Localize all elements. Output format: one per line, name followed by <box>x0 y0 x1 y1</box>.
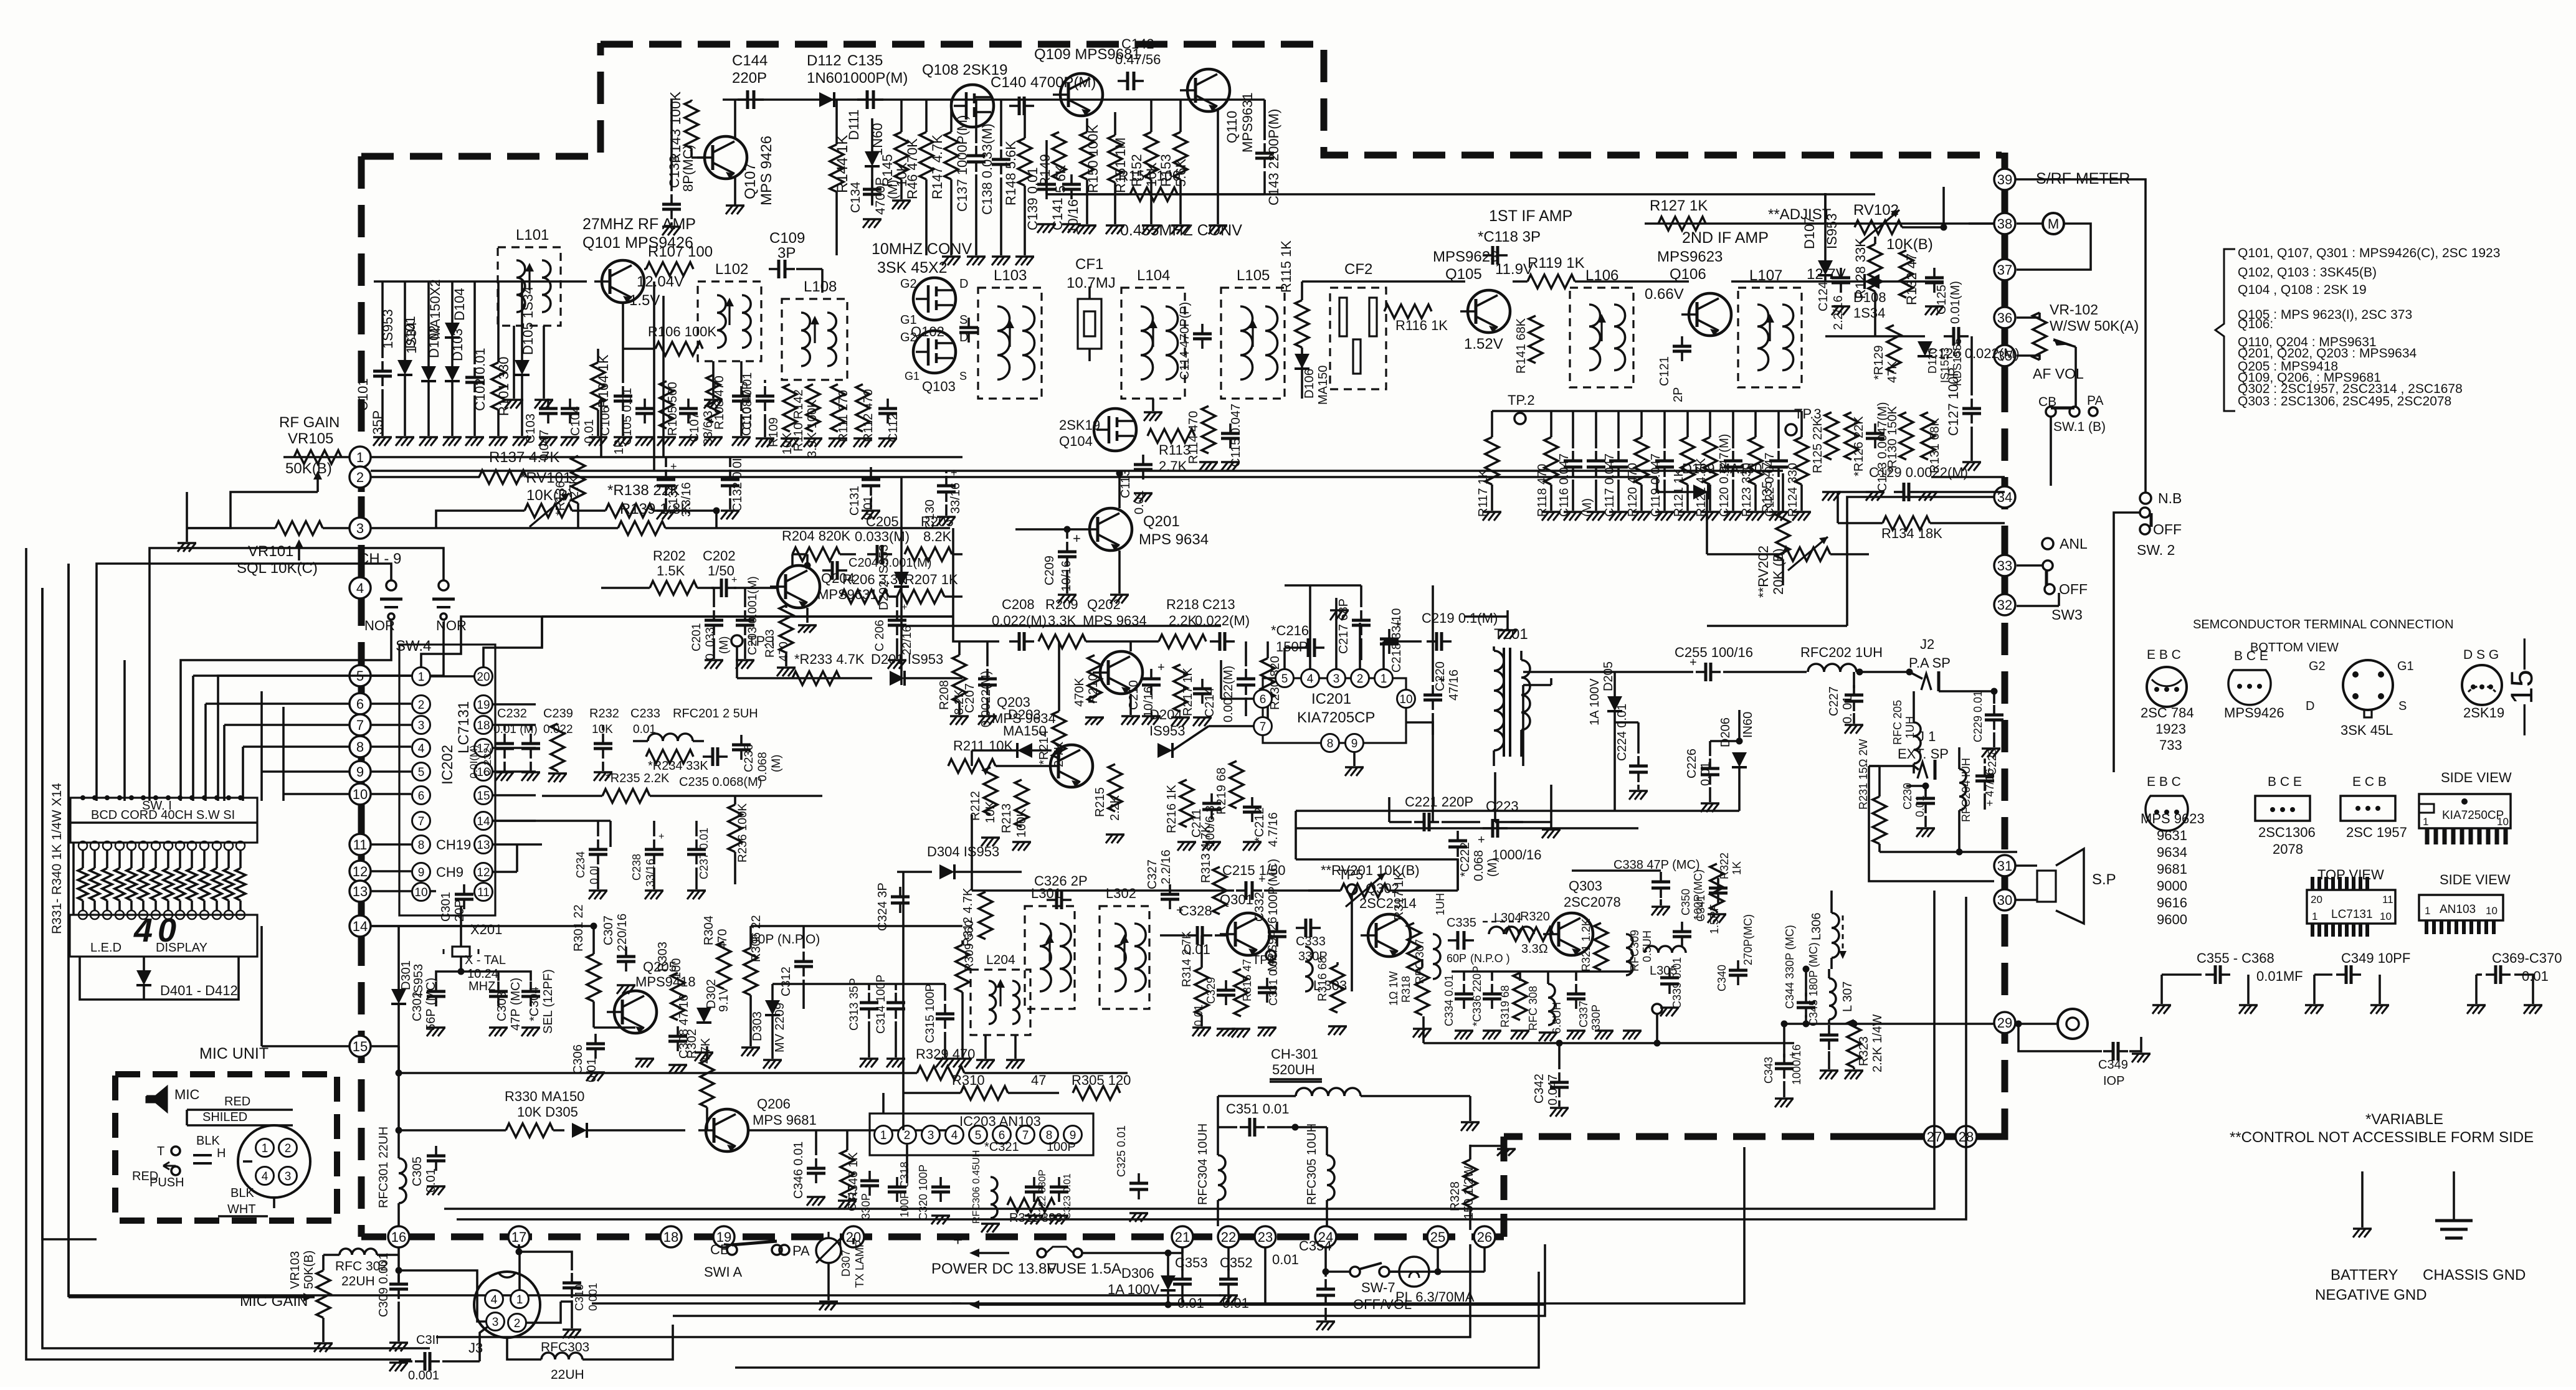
svg-text:S: S <box>959 370 967 382</box>
diode D112 <box>807 52 842 107</box>
svg-text:C134: C134 <box>848 181 863 213</box>
svg-text:0.0I(M): 0.0I(M) <box>468 745 480 778</box>
svg-text:C115 0.047: C115 0.047 <box>1229 404 1243 467</box>
text mps list <box>2157 878 2187 894</box>
capacitor C141 <box>1050 174 1081 234</box>
svg-text:D301: D301 <box>399 960 413 990</box>
svg-text:20P: 20P <box>453 899 467 922</box>
resistor R234 <box>646 750 708 773</box>
text CH-9 <box>358 551 401 567</box>
capacitor C337 <box>1567 984 1602 1039</box>
wire t201 bot <box>1495 772 1551 822</box>
capacitor C323 <box>1050 1173 1073 1224</box>
node IC202 pin 2 <box>412 696 430 714</box>
wire ic203 wires <box>883 1093 907 1183</box>
svg-text:R114 470: R114 470 <box>1187 411 1200 464</box>
capacitor C255 <box>1523 645 1807 681</box>
node terminal 10 <box>349 783 371 805</box>
pot VR105 <box>279 414 341 477</box>
wire main boundary right bus solid upper <box>2002 153 2008 380</box>
svg-text:(N.P.O ): (N.P.O ) <box>1470 952 1510 965</box>
node IC202 pin 3 <box>412 716 430 734</box>
svg-text:0.01: 0.01 <box>2522 968 2549 984</box>
svg-text:IN60: IN60 <box>1741 712 1755 738</box>
svg-text:C327: C327 <box>1146 859 1159 889</box>
svg-text:C313 35P: C313 35P <box>848 978 861 1031</box>
node IC202 pin 17 <box>475 739 493 757</box>
wire pin7 left <box>1172 726 1253 750</box>
resistor R125 <box>1811 412 1838 473</box>
ic IC202 box <box>399 645 495 915</box>
svg-text:D203: D203 <box>1008 707 1041 722</box>
svg-text:C234: C234 <box>574 851 587 878</box>
capacitor C342 <box>1533 1040 1569 1117</box>
svg-text:270P(MC): 270P(MC) <box>1742 914 1754 965</box>
inductor L103 <box>978 267 1042 399</box>
node IC202 pin 7 <box>412 812 430 830</box>
text CH19 <box>436 837 471 853</box>
switch NOR1 <box>364 580 402 633</box>
svg-text:R205: R205 <box>921 514 954 529</box>
wire term14 line <box>371 925 492 927</box>
lamp D307 <box>816 1238 866 1310</box>
svg-text:C 232: C 232 <box>482 748 493 776</box>
svg-text:10K D305: 10K D305 <box>517 1104 578 1120</box>
resistor R204 <box>782 528 856 565</box>
svg-text:10: 10 <box>353 787 368 802</box>
capacitor C230 <box>1901 783 1935 837</box>
diode D203 <box>1003 707 1047 758</box>
resistor R104 <box>589 349 611 446</box>
svg-text:0.068: 0.068 <box>756 752 769 782</box>
wire mic wires <box>187 1110 274 1208</box>
svg-text:1S34: 1S34 <box>1853 305 1885 321</box>
wire d107 col <box>1824 193 1827 224</box>
node IC201 pin 1 <box>1375 669 1393 688</box>
svg-text:RFC202 1UH: RFC202 1UH <box>1800 645 1883 660</box>
resistor R319 <box>1499 973 1529 1039</box>
resistor array R331-R340 <box>78 795 245 910</box>
capacitor C2022 <box>1222 641 1255 722</box>
svg-text:0.0022(M): 0.0022(M) <box>1222 666 1235 722</box>
svg-text:C221 220P: C221 220P <box>1405 794 1473 810</box>
wire q204 wires <box>601 554 817 633</box>
text c232 row <box>497 707 758 721</box>
text WHT <box>218 1203 268 1216</box>
text Q101 voltages <box>629 273 684 309</box>
svg-text:11: 11 <box>2382 894 2393 905</box>
svg-text:C335: C335 <box>1447 916 1476 930</box>
svg-text:SEL (12PF): SEL (12PF) <box>541 969 555 1034</box>
svg-text:C208: C208 <box>1002 597 1035 612</box>
svg-text:2: 2 <box>1357 673 1364 686</box>
capacitor C104 <box>561 399 596 446</box>
svg-text:1: 1 <box>418 671 425 684</box>
capacitor C112 <box>878 399 900 447</box>
svg-text:D304 IS953: D304 IS953 <box>927 844 999 859</box>
svg-text:Q201, Q202, Q203 : MPS9634: Q201, Q202, Q203 : MPS9634 <box>2238 346 2417 361</box>
capacitor C214 <box>1193 679 1217 726</box>
resistor R216 <box>1165 780 1196 851</box>
text CONTROL <box>2230 1129 2534 1146</box>
svg-text:C255 100/16: C255 100/16 <box>1675 645 1753 660</box>
wire nest l2 <box>67 564 70 1297</box>
node IC202 pin 18 <box>475 716 493 734</box>
wire Q107 collector up <box>734 100 736 138</box>
resistor R305 <box>1072 1072 1131 1100</box>
svg-text:Q303: Q303 <box>1569 878 1602 894</box>
svg-text:C342: C342 <box>1533 1074 1546 1104</box>
capacitor C304 <box>521 969 555 1036</box>
resistor R328 <box>1448 1145 1477 1230</box>
ground q205 <box>635 1059 654 1067</box>
diode D204 <box>1149 707 1186 758</box>
node IC202 pin 1 <box>412 668 430 686</box>
node IC202 pin 5 <box>412 763 430 781</box>
legend KIA7250CP <box>2419 770 2512 844</box>
resistor R231 <box>1857 739 1886 852</box>
wire vco bus <box>751 926 962 984</box>
capacitor C103 <box>524 399 558 461</box>
wire tp1 down <box>737 646 872 678</box>
svg-text:+: + <box>1073 531 1081 546</box>
text 2nd if <box>1682 229 1769 247</box>
svg-text:Q104: Q104 <box>1059 433 1093 449</box>
resistor R210 <box>1073 655 1104 725</box>
svg-text:+: + <box>1258 872 1266 886</box>
node IC201 pin 5 <box>1276 669 1294 688</box>
svg-text:CH-301: CH-301 <box>1271 1046 1318 1062</box>
svg-text:14: 14 <box>477 815 490 828</box>
svg-text:BCD CORD 40CH S.W: BCD CORD 40CH S.W SI <box>91 808 235 822</box>
svg-text:C 206: C 206 <box>873 620 886 651</box>
svg-text:733: 733 <box>2159 737 2182 753</box>
wire R148 <box>1015 100 1034 265</box>
capacitor (M) <box>1580 411 1605 521</box>
capacitor C320 <box>917 1165 950 1224</box>
svg-text:R202: R202 <box>653 548 686 564</box>
resistor R123 <box>1740 411 1765 521</box>
svg-text:1: 1 <box>1381 673 1387 686</box>
svg-text:3.9K 100K: 3.9K 100K <box>806 399 819 458</box>
text 11.9V <box>1495 261 1533 278</box>
wire term14 bus <box>371 923 597 930</box>
node terminal 17 <box>508 1226 530 1247</box>
capacitor C206 <box>873 597 914 669</box>
svg-text:1: 1 <box>2423 816 2428 828</box>
svg-text:RF GAIN: RF GAIN <box>279 414 340 431</box>
svg-text:*R235 2.2K: *R235 2.2K <box>606 772 670 785</box>
svg-text:1: 1 <box>2425 905 2430 917</box>
node terminal 31 <box>1994 855 2015 876</box>
node IC203 pin 9 <box>1064 1126 1082 1144</box>
svg-text:C239: C239 <box>543 707 573 721</box>
box MIC UNIT <box>115 1045 337 1221</box>
svg-text:5: 5 <box>1281 673 1288 686</box>
svg-text:*R233 4.7K: *R233 4.7K <box>794 651 865 667</box>
svg-text:C124: C124 <box>1817 281 1830 311</box>
svg-text:C229 0.01: C229 0.01 <box>1972 691 1984 742</box>
svg-text:SW. 2: SW. 2 <box>2137 542 2175 558</box>
resistor R150 <box>1080 125 1101 193</box>
resistor R115 <box>1278 240 1309 399</box>
svg-text:C103: C103 <box>524 414 538 443</box>
capacitor C314 <box>875 975 905 1067</box>
svg-text:IC202: IC202 <box>439 745 456 785</box>
capacitor C129 <box>1869 465 1968 501</box>
svg-text:330P: 330P <box>860 1193 872 1219</box>
resistor R233 <box>792 651 865 685</box>
wire pin1 up <box>1384 641 1422 669</box>
capacitor C117 <box>1603 411 1628 521</box>
capacitor C122 <box>1763 411 1788 521</box>
node IC201 pin 4 <box>1301 669 1319 688</box>
svg-text:C137 1000P(M): C137 1000P(M) <box>954 115 970 212</box>
node terminal 2 <box>349 466 371 488</box>
pot VR102 <box>2017 301 2139 360</box>
node IC203 pin 6 <box>993 1126 1011 1144</box>
svg-text:L304: L304 <box>1494 911 1522 925</box>
svg-text:3: 3 <box>356 521 364 536</box>
capacitor C121 <box>1658 336 1691 402</box>
resistor R144 <box>830 135 851 193</box>
svg-text:SW3: SW3 <box>2051 607 2083 623</box>
node IC203 pin 5 <box>969 1126 987 1144</box>
svg-text:4: 4 <box>951 1129 958 1142</box>
svg-text:C214: C214 <box>1203 688 1217 717</box>
svg-text:7: 7 <box>1022 1129 1029 1142</box>
node IC202 pin 9 <box>412 863 430 881</box>
svg-text:0. 033: 0. 033 <box>704 627 717 660</box>
svg-text:56P (MC): 56P (MC) <box>424 978 438 1031</box>
diode D111 <box>846 110 885 206</box>
wire q201 top <box>1116 470 1123 509</box>
svg-text:9631: 9631 <box>2157 828 2187 843</box>
svg-text:C127 100P: C127 100P <box>1946 367 1961 436</box>
svg-text:C116 0.047: C116 0.047 <box>1557 453 1571 517</box>
svg-text:R109: R109 <box>767 417 781 447</box>
svg-text:RFC305 10UH: RFC305 10UH <box>1305 1123 1319 1205</box>
svg-text:S.P: S.P <box>2092 871 2116 888</box>
pot RV201 <box>1308 863 1458 907</box>
svg-text:MA150: MA150 <box>1316 366 1330 405</box>
svg-text:32: 32 <box>1997 597 2012 613</box>
svg-text:2.2/16: 2.2/16 <box>1159 849 1173 884</box>
capacitor C102 <box>465 281 488 446</box>
node IC202 pin 16 <box>475 763 493 781</box>
resistor R137 <box>479 449 559 484</box>
svg-text:0.01: 0.01 <box>1272 1252 1299 1267</box>
capacitor C308 <box>668 995 691 1074</box>
svg-text:+: + <box>901 602 907 613</box>
svg-text:4.7/16: 4.7/16 <box>1267 812 1280 847</box>
svg-text:8.2K: 8.2K <box>923 529 952 544</box>
svg-text:C349: C349 <box>2098 1058 2128 1072</box>
wire q203 wires <box>972 641 1063 766</box>
svg-text:C135: C135 <box>847 52 883 69</box>
capacitor C142 <box>1115 36 1161 90</box>
svg-text:0.01: 0.01 <box>1192 1005 1205 1026</box>
pot VR101 <box>187 521 349 577</box>
capacitor C335 <box>1447 916 1510 965</box>
wire j3 wires <box>399 1244 572 1323</box>
resistor R119 <box>1528 255 1585 288</box>
resistor R206 <box>841 572 907 603</box>
diode D302 <box>695 979 731 1061</box>
svg-text:2: 2 <box>418 699 425 712</box>
svg-text:26: 26 <box>1477 1229 1492 1245</box>
inductor CH301 <box>1218 1088 1470 1096</box>
resistor R134 <box>1838 492 2005 541</box>
ground pin9 <box>1345 752 1364 776</box>
svg-text:R124 330: R124 330 <box>1786 463 1800 517</box>
capacitor C110 <box>740 382 774 436</box>
resistor R120 <box>1626 411 1651 521</box>
svg-text:C236: C236 <box>743 744 756 772</box>
svg-text:L102: L102 <box>715 261 748 278</box>
capacitor C340 <box>1716 914 1754 991</box>
svg-text:S: S <box>959 313 967 327</box>
resistor R148 <box>1003 138 1032 206</box>
capacitor C138 <box>979 123 1010 215</box>
svg-text:6: 6 <box>1260 693 1267 706</box>
svg-text:R311 390: R311 390 <box>1009 1211 1062 1225</box>
wire nest 1 <box>42 588 97 1239</box>
svg-text:L302: L302 <box>1106 886 1136 901</box>
resistor R303 <box>656 942 685 1020</box>
svg-text:1A 100V: 1A 100V <box>1588 678 1602 726</box>
capacitor C131 <box>848 467 880 520</box>
svg-text:47/16: 47/16 <box>1447 669 1461 701</box>
svg-text:L108: L108 <box>804 278 837 295</box>
switch PTT <box>150 1145 226 1189</box>
wire pin20 up <box>483 617 542 667</box>
transistor Q302 <box>1359 881 1417 957</box>
node terminal 25 <box>1427 1226 1448 1247</box>
capacitor C333 <box>1296 919 1328 963</box>
svg-text:C131: C131 <box>848 486 862 516</box>
svg-text:X201: X201 <box>470 922 502 937</box>
diode D305 <box>553 1123 685 1138</box>
svg-text:2SC 784: 2SC 784 <box>2141 705 2194 721</box>
svg-text:C126 0.022(M): C126 0.022(M) <box>1928 346 2020 361</box>
svg-text:IC201: IC201 <box>1311 691 1351 707</box>
svg-text:MPS 9623: MPS 9623 <box>2141 811 2205 826</box>
wire term34 line <box>1707 497 1994 626</box>
svg-text:D307: D307 <box>840 1250 852 1277</box>
led display box <box>70 910 257 957</box>
transistor Q102 <box>900 277 968 327</box>
wire pin4 up <box>1285 585 1361 669</box>
resistor R149 <box>1037 132 1068 193</box>
wire meter line <box>1969 222 1994 225</box>
text CB PA sw1 <box>2038 394 2106 434</box>
svg-text:C317: C317 <box>846 1184 858 1211</box>
wire R146 <box>925 100 928 255</box>
svg-text:20: 20 <box>477 671 490 684</box>
svg-text:TP. I: TP. I <box>748 633 775 649</box>
svg-text:(M): (M) <box>718 636 731 654</box>
capacitor C339 <box>1660 957 1683 1016</box>
resistor R322 <box>1708 853 1743 923</box>
speaker MIC <box>146 1087 199 1112</box>
text mps list <box>2157 828 2187 843</box>
svg-text:KIA7250CP: KIA7250CP <box>2442 809 2504 822</box>
node terminal 22 <box>1218 1226 1239 1247</box>
svg-text:SEMCONDUCTOR TERMINAL CON: SEMCONDUCTOR TERMINAL CONNECTION <box>2193 618 2454 631</box>
capacitor C236 <box>732 735 783 782</box>
text Q102 label <box>911 324 944 339</box>
svg-text:10K(B): 10K(B) <box>1886 236 1933 253</box>
svg-text:+: + <box>1157 661 1165 674</box>
capacitor C116 <box>1557 411 1582 521</box>
wire L101 gnd <box>505 326 553 409</box>
svg-text:C217 68P: C217 68P <box>1337 598 1351 654</box>
wire pin14 line <box>493 821 611 847</box>
svg-text:0.001: 0.001 <box>408 1369 439 1383</box>
resistor R106 <box>623 324 716 356</box>
svg-text:C337: C337 <box>1577 1001 1590 1028</box>
resistor R318 <box>1387 959 1432 1038</box>
capacitor C328 <box>1160 903 1227 957</box>
connector J3 <box>468 1272 540 1356</box>
svg-text:D206: D206 <box>1719 717 1732 747</box>
svg-text:RFC201 2 5UH: RFC201 2 5UH <box>673 707 758 721</box>
svg-text:*C212: *C212 <box>1253 807 1267 842</box>
svg-text:N.B: N.B <box>2158 490 2182 506</box>
wire bus y756 <box>371 470 1783 472</box>
svg-text:2: 2 <box>514 1317 521 1330</box>
svg-text:VR105: VR105 <box>288 430 333 447</box>
inductor RFC309 <box>1626 930 1653 975</box>
node IC202 pin 11 <box>475 883 493 901</box>
svg-text:C224 0.01: C224 0.01 <box>1615 704 1629 761</box>
node IC203 pin 3 <box>922 1126 940 1144</box>
capacitor C322 <box>1025 1170 1048 1224</box>
wire main dashed boundary top-left step <box>361 43 601 156</box>
svg-text:C339 0.01: C339 0.01 <box>1671 957 1683 1009</box>
resistor R213 <box>1000 780 1031 851</box>
svg-text:(M): (M) <box>770 755 783 772</box>
svg-text:100K: 100K <box>1015 808 1029 838</box>
node IC202 pin 12 <box>475 863 493 881</box>
capacitor C235 <box>679 747 762 789</box>
resistor R110 <box>792 384 822 458</box>
svg-text:50K(B): 50K(B) <box>302 1251 316 1289</box>
inductor L104 <box>1121 267 1185 399</box>
svg-text:1S34: 1S34 <box>404 322 419 354</box>
svg-text:1.5V: 1.5V <box>629 292 660 309</box>
resistor R124 <box>1786 411 1811 521</box>
capacitor C354 <box>1272 1238 1335 1330</box>
inductor RFC301 <box>377 1127 406 1226</box>
svg-text:R323: R323 <box>1857 1036 1871 1066</box>
resistor R218 <box>1159 597 1206 648</box>
svg-text:Q104 , Q108 : 2SK 19: Q104 , Q108 : 2SK 19 <box>2238 283 2367 297</box>
svg-text:C114 470P(P): C114 470P(P) <box>1178 302 1192 380</box>
inductor L304 <box>1483 911 1534 934</box>
svg-text:3: 3 <box>928 1129 934 1142</box>
svg-text:20: 20 <box>2311 894 2322 905</box>
svg-text:R125 22K: R125 22K <box>1811 417 1825 473</box>
wire mid bus y1005 <box>901 625 1221 627</box>
svg-text:0.47/56: 0.47/56 <box>1115 52 1161 67</box>
text 0455 conv <box>1120 222 1242 239</box>
svg-text:R217 1K: R217 1K <box>1181 668 1195 716</box>
svg-text:X - TAL: X - TAL <box>465 953 506 967</box>
inductor L108 <box>782 278 847 380</box>
capacitor C239 <box>521 725 540 781</box>
